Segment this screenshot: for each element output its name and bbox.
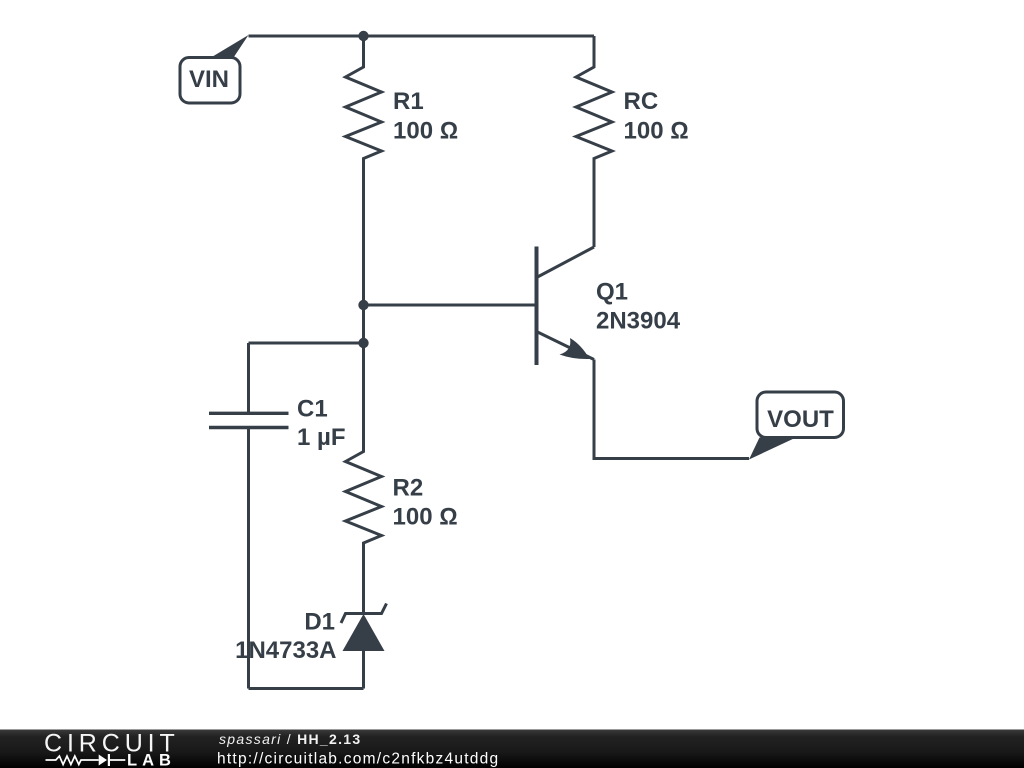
svg-text:100 Ω: 100 Ω [624,118,689,145]
node A junction dot (VIN / R1 / RC) [358,31,368,41]
wire top rail from VIN to RC [249,35,595,38]
svg-text:100 Ω: 100 Ω [393,504,458,531]
wire bottom return [249,687,364,690]
footer url [217,751,499,768]
resistor R1 [346,36,382,305]
node B junction dot (R1 / base / C1 branch) [358,300,368,310]
svg-text:D1: D1 [304,609,335,636]
flag VIN [180,35,249,103]
resistor RC [576,36,612,247]
wire C1 branch horizontal [249,342,364,345]
svg-text:1 µF: 1 µF [297,424,346,451]
svg-text:C1: C1 [297,396,328,423]
wire emitter to VOUT corner [594,360,749,459]
svg-text:R1: R1 [393,88,424,115]
footer bar [0,730,1024,768]
node C junction dot (C1 branch) [358,338,368,348]
logo CIRCUIT LAB [44,730,180,768]
svg-text:VOUT: VOUT [767,406,834,433]
wire base (node to Q1) [364,304,537,307]
label D1 1N4733A [235,609,336,665]
svg-text:Q1: Q1 [596,279,628,306]
svg-text:LAB: LAB [127,752,176,768]
svg-text:RC: RC [624,88,659,115]
label Q1 2N3904 [596,279,681,335]
svg-text:spassari / HH_2.13: spassari / HH_2.13 [219,731,361,747]
svg-text:1N4733A: 1N4733A [235,637,336,664]
svg-text:VIN: VIN [189,66,229,93]
label RC 100 Ω [624,88,689,145]
zener diode D1 [341,604,387,689]
svg-text:100 Ω: 100 Ω [393,118,458,145]
label C1 1 µF [297,396,346,452]
capacitor C1 [209,343,289,689]
label R1 100 Ω [393,88,458,145]
flag VOUT [749,392,844,460]
resistor R2 [346,305,382,613]
svg-text:R2: R2 [393,475,424,502]
footer text spassari / HH_2.13 [219,731,361,747]
svg-text:2N3904: 2N3904 [596,308,681,335]
transistor Q1 (NPN 2N3904) [537,247,595,366]
svg-text:http://circuitlab.com/c2nfkbz4: http://circuitlab.com/c2nfkbz4utddg [217,751,499,768]
label R2 100 Ω [393,475,458,531]
